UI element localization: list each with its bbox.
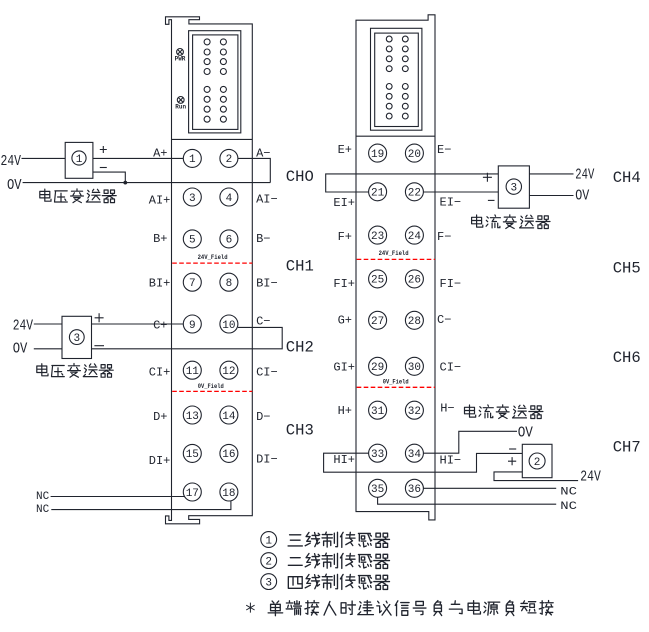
svg-text:OV: OV — [13, 341, 28, 358]
svg-text:AI+: AI+ — [149, 194, 171, 208]
svg-text:20: 20 — [408, 149, 421, 161]
svg-text:EI−: EI− — [440, 196, 462, 210]
minus sign CH2 — [94, 345, 104, 347]
circled 1 symbol — [72, 151, 86, 165]
minus sign CH4 — [488, 199, 495, 201]
svg-text:DI−: DI− — [256, 452, 278, 466]
right module connector pins — [386, 36, 408, 119]
svg-text:D−: D− — [256, 410, 270, 424]
terminal 2 — [220, 149, 238, 167]
legend text line 1 — [288, 535, 302, 546]
svg-text:24V_Field: 24V_Field — [379, 250, 409, 257]
svg-text:24V: 24V — [580, 469, 601, 486]
wire terminal 33 HI+ wrap-around to transmitter plus — [324, 453, 523, 472]
svg-text:2: 2 — [265, 556, 272, 568]
terminal 21 — [369, 183, 387, 201]
terminal 31 — [369, 401, 387, 419]
svg-text:25: 25 — [371, 275, 384, 287]
svg-text:B−: B− — [256, 232, 270, 246]
plus sign CH2 — [95, 313, 104, 322]
wire 24V to transmitter 3 — [34, 323, 62, 325]
plus sign CH7 — [508, 457, 516, 465]
svg-text:E−: E− — [437, 143, 451, 157]
legend asterisk — [246, 603, 254, 613]
wire NC to terminal 17 — [51, 496, 185, 498]
wire transmitter to 0V CH4 — [529, 195, 573, 197]
left module bus connector inner frame — [193, 35, 238, 129]
svg-text:OV: OV — [7, 177, 22, 194]
svg-text:NC: NC — [560, 501, 577, 513]
svg-text:D+: D+ — [153, 410, 167, 424]
right module bus connector outer frame — [371, 28, 422, 130]
wire transmitter 3 plus to terminal C+ — [92, 323, 184, 325]
svg-text:15: 15 — [186, 449, 199, 461]
svg-text:24: 24 — [408, 231, 422, 243]
svg-text:1: 1 — [76, 154, 83, 166]
svg-text:34: 34 — [408, 449, 422, 461]
minus sign CH7 — [509, 448, 516, 450]
terminal 25 — [369, 270, 387, 288]
svg-text:2: 2 — [226, 154, 233, 166]
RUN LED indicator — [177, 97, 184, 104]
svg-text:1: 1 — [189, 154, 196, 166]
svg-text:CH4: CH4 — [613, 169, 641, 187]
svg-text:9: 9 — [189, 320, 196, 332]
right 0V_Field red dashed separator — [357, 386, 435, 388]
terminal 20 — [405, 144, 423, 162]
legend note text — [268, 601, 283, 616]
svg-text:24V: 24V — [575, 167, 594, 184]
wire terminal 21 EI+ wrap-around to transmitter plus — [326, 174, 499, 192]
wire terminal 36 to NC — [423, 487, 556, 489]
svg-text:NC: NC — [36, 491, 50, 503]
terminal 9 — [183, 315, 201, 333]
wire 24V to transmitter 1 — [22, 157, 66, 159]
terminal 4 — [220, 188, 238, 206]
left module connector pins — [204, 39, 226, 122]
svg-text:3: 3 — [265, 577, 272, 589]
wire NC to terminal 18 — [51, 501, 231, 510]
terminal 6 — [220, 230, 238, 248]
transmitter box 3 (four-wire sensor) — [62, 316, 92, 358]
svg-text:10: 10 — [222, 320, 235, 332]
legend text line 2 — [288, 558, 302, 566]
svg-text:EI+: EI+ — [333, 196, 355, 210]
svg-text:33: 33 — [371, 449, 384, 461]
legend circled 2 — [261, 553, 277, 569]
svg-text:23: 23 — [371, 231, 384, 243]
svg-text:36: 36 — [408, 484, 421, 496]
junction dot on 0V rail — [123, 181, 127, 185]
svg-text:NC: NC — [36, 504, 50, 516]
svg-text:19: 19 — [371, 149, 384, 161]
svg-text:18: 18 — [222, 488, 235, 500]
svg-text:Run: Run — [175, 104, 186, 111]
svg-text:16: 16 — [222, 449, 235, 461]
svg-text:CI+: CI+ — [149, 365, 171, 379]
svg-text:11: 11 — [186, 366, 200, 378]
svg-text:HI+: HI+ — [333, 453, 355, 467]
svg-text:GI+: GI+ — [333, 360, 355, 374]
plus sign CH4 — [483, 173, 492, 182]
svg-text:2: 2 — [534, 457, 541, 469]
current transmitter label CH7 — [465, 405, 476, 417]
circled 3 symbol — [69, 330, 84, 345]
wire transmitter to 24V CH4 — [529, 173, 573, 175]
svg-text:4: 4 — [226, 193, 233, 205]
wire terminal 34 HI- to 0V CH7 — [423, 431, 517, 453]
terminal 13 — [183, 406, 201, 424]
right module terminal-area divider line — [356, 135, 435, 137]
svg-text:3: 3 — [510, 183, 517, 195]
terminal 5 — [183, 230, 201, 248]
svg-text:35: 35 — [371, 484, 384, 496]
svg-text:F+: F+ — [338, 230, 352, 244]
svg-text:22: 22 — [408, 188, 421, 200]
svg-text:5: 5 — [189, 235, 196, 247]
wire terminal 2 A- wrap-around — [238, 158, 270, 182]
svg-text:CH1: CH1 — [286, 257, 314, 275]
svg-text:3: 3 — [73, 333, 80, 345]
0V rail wire across module to A- wrap — [23, 182, 271, 184]
svg-text:24V: 24V — [13, 318, 33, 335]
terminal 15 — [183, 444, 201, 462]
svg-text:30: 30 — [408, 362, 421, 374]
svg-text:B+: B+ — [153, 232, 167, 246]
svg-text:17: 17 — [186, 488, 199, 500]
svg-text:1: 1 — [265, 535, 272, 547]
PWR LED indicator — [177, 49, 184, 56]
terminal 30 — [405, 357, 423, 375]
svg-text:OV: OV — [575, 188, 589, 205]
wire transmitter 1 plus to terminal A+ — [93, 157, 183, 159]
wire terminal 22 EI- to transmitter — [423, 191, 498, 193]
terminal 16 — [220, 444, 238, 462]
voltage transmitter label CH0 — [40, 189, 51, 201]
svg-text:32: 32 — [408, 406, 421, 418]
svg-text:H+: H+ — [338, 404, 352, 418]
svg-text:29: 29 — [371, 362, 384, 374]
terminal 11 — [183, 361, 201, 379]
terminal 32 — [405, 401, 423, 419]
svg-text:12: 12 — [222, 366, 235, 378]
terminal 19 — [369, 144, 387, 162]
transmitter box 3 current (four-wire sensor) — [498, 166, 529, 208]
terminal 24 — [405, 226, 423, 244]
svg-text:24V_Field: 24V_Field — [198, 254, 228, 261]
svg-text:CH3: CH3 — [286, 422, 314, 440]
left module body outline with DIN tabs — [166, 17, 253, 524]
svg-text:21: 21 — [371, 188, 385, 200]
svg-text:OV: OV — [518, 425, 533, 442]
terminal 26 — [405, 270, 423, 288]
svg-text:27: 27 — [371, 316, 384, 328]
right module body outline with DIN tabs — [356, 15, 435, 520]
svg-text:FI+: FI+ — [333, 277, 355, 291]
right 24V_Field red dashed separator — [357, 258, 435, 260]
svg-text:NC: NC — [560, 486, 577, 498]
svg-text:CH7: CH7 — [613, 439, 641, 457]
svg-text:PWR: PWR — [175, 56, 186, 63]
svg-text:F−: F− — [437, 230, 451, 244]
transmitter box 1 (three-wire sensor) — [65, 142, 93, 178]
terminal 29 — [369, 357, 387, 375]
svg-text:C−: C− — [256, 315, 270, 329]
svg-text:G+: G+ — [338, 313, 352, 327]
terminal 17 — [183, 483, 201, 501]
left module terminal-area divider line — [172, 138, 253, 140]
transmitter box 2 (two-wire sensor) — [522, 444, 552, 477]
terminal 27 — [369, 311, 387, 329]
left module bus connector outer frame — [189, 31, 241, 133]
voltage transmitter label CH2 — [37, 364, 48, 376]
svg-text:6: 6 — [226, 235, 233, 247]
terminal 8 — [220, 273, 238, 291]
svg-text:3: 3 — [189, 193, 196, 205]
svg-text:BI−: BI− — [256, 276, 278, 290]
svg-text:8: 8 — [226, 278, 233, 290]
legend text line 3 — [288, 577, 302, 589]
wire transmitter 3 minus across module to C- wrap — [92, 327, 283, 348]
terminal 35 — [369, 479, 387, 497]
svg-text:0V_Field: 0V_Field — [198, 383, 224, 390]
terminal 18 — [220, 483, 238, 501]
terminal 23 — [369, 226, 387, 244]
circled 2 symbol CH7 — [529, 453, 545, 469]
svg-text:C−: C− — [437, 313, 451, 327]
terminal 10 — [220, 315, 238, 333]
terminal 33 — [369, 444, 387, 462]
left 0V_Field red dashed separator — [172, 390, 252, 392]
current transmitter label CH4 — [472, 215, 483, 227]
svg-text:CI−: CI− — [440, 360, 462, 374]
wire 0V to transmitter 3 — [34, 348, 62, 350]
terminal 22 — [405, 183, 423, 201]
wire transmitter 2 to 24V CH7 — [494, 472, 578, 481]
legend circled 3 — [261, 574, 277, 590]
minus sign CH0 — [100, 167, 107, 169]
svg-text:7: 7 — [189, 278, 196, 290]
svg-text:DI+: DI+ — [149, 454, 171, 468]
terminal 12 — [220, 361, 238, 379]
terminal 36 — [405, 479, 423, 497]
svg-text:CHO: CHO — [286, 168, 314, 186]
svg-text:14: 14 — [222, 411, 236, 423]
terminal 1 — [183, 149, 201, 167]
svg-text:CH5: CH5 — [613, 260, 641, 278]
svg-text:13: 13 — [186, 411, 199, 423]
svg-text:28: 28 — [408, 316, 421, 328]
svg-text:BI+: BI+ — [149, 276, 171, 290]
svg-text:C+: C+ — [153, 318, 167, 332]
right module bus connector inner frame — [375, 33, 419, 126]
svg-text:CI−: CI− — [256, 366, 278, 380]
terminal 28 — [405, 311, 423, 329]
svg-text:0V_Field: 0V_Field — [383, 378, 409, 385]
terminal 34 — [405, 444, 423, 462]
circled 3 symbol CH4 — [506, 179, 521, 194]
terminal 14 — [220, 406, 238, 424]
wire transmitter 1 minus to 0V rail — [93, 172, 125, 183]
svg-text:26: 26 — [408, 275, 421, 287]
svg-text:HI−: HI− — [440, 453, 462, 467]
wire terminal 35 to NC — [378, 497, 557, 504]
svg-text:AI−: AI− — [256, 192, 278, 206]
svg-text:CH6: CH6 — [613, 349, 641, 367]
plus sign CH0 — [100, 146, 107, 153]
svg-text:31: 31 — [371, 406, 385, 418]
svg-text:24V: 24V — [1, 153, 22, 170]
legend circled 1 — [261, 532, 277, 548]
svg-text:H−: H− — [440, 402, 454, 416]
svg-text:FI−: FI− — [440, 277, 462, 291]
terminal 7 — [183, 273, 201, 291]
svg-text:CH2: CH2 — [286, 338, 314, 356]
svg-text:E+: E+ — [338, 143, 352, 157]
terminal 3 — [183, 188, 201, 206]
left 24V_Field red dashed separator — [172, 262, 252, 264]
